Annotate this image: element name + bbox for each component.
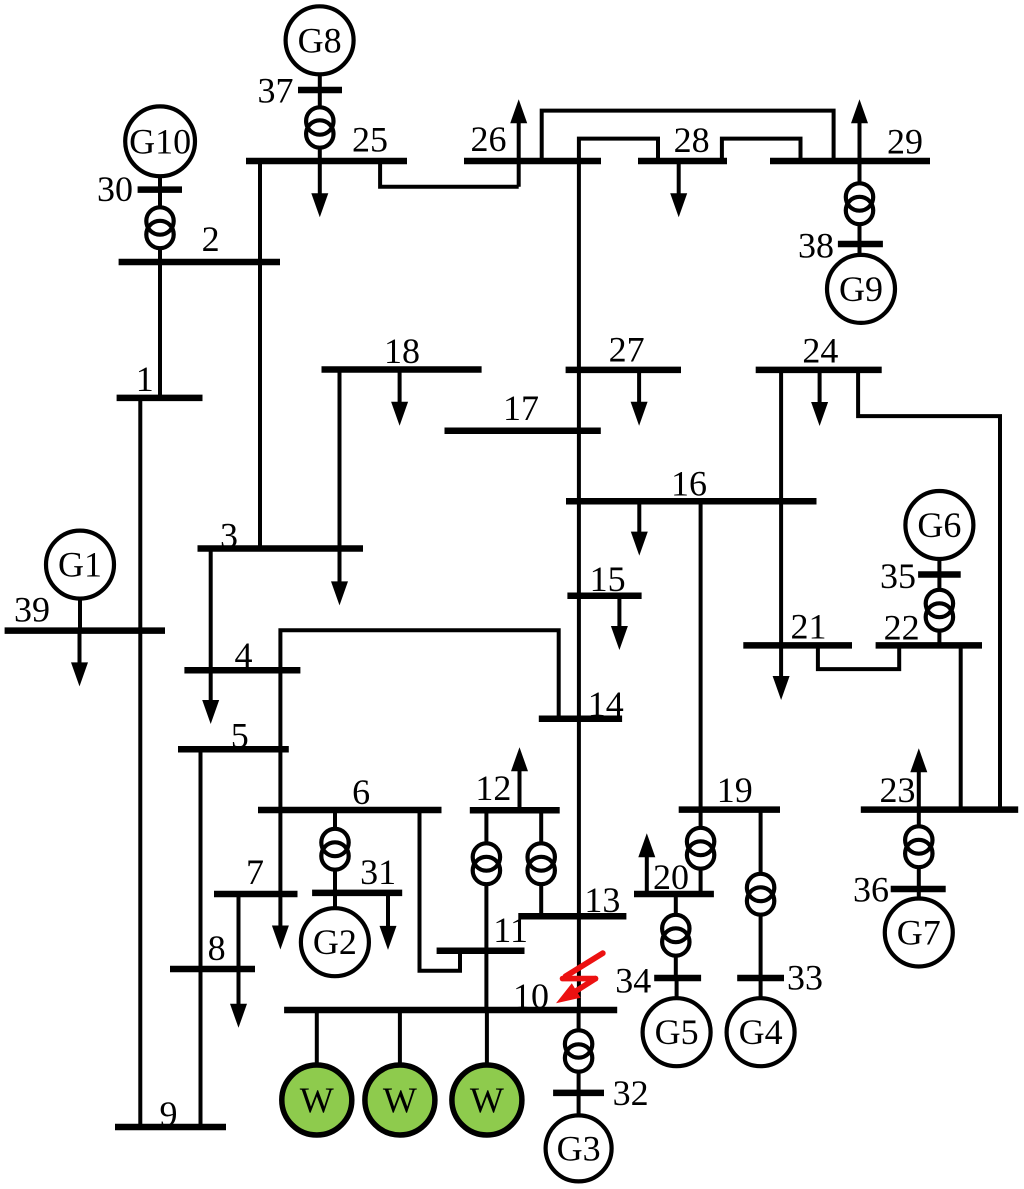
bus 15 (567, 559, 641, 599)
bus 3 (198, 516, 364, 556)
bus 9 (115, 1094, 226, 1134)
load arrow bus 24 load (811, 370, 828, 426)
bus 31 (312, 852, 402, 893)
wire 19 to 33 transformer branch upper (759, 810, 763, 874)
bus 21 (743, 606, 852, 646)
transformer T20-34 (662, 915, 689, 956)
svg-text:38: 38 (798, 226, 834, 266)
bus 6 (258, 772, 442, 812)
bus 30 (97, 169, 182, 209)
transformer T29-38 (846, 183, 873, 224)
svg-text:G4: G4 (739, 1012, 783, 1052)
wire 6 to 31 transformer branch upper (333, 810, 337, 829)
wire 21 to 22 jog (818, 645, 899, 669)
bus 29 (770, 122, 930, 162)
load arrow bus 31 load (380, 893, 397, 950)
bus 17 (445, 388, 601, 431)
load arrow bus 3 load (331, 549, 348, 606)
wire spine 26-27-17-16-15-14-13-10 (577, 161, 581, 1010)
wire 19 to 33 transformer branch lower (759, 915, 763, 978)
bus 39 (5, 590, 165, 631)
svg-text:28: 28 (674, 120, 710, 160)
wire 12 to 13 transformer branch upper (539, 810, 543, 843)
wire G6 stem (937, 559, 941, 575)
transformer T35-22 (926, 590, 953, 631)
wire 26 to 28 bracket (579, 139, 658, 161)
svg-text:35: 35 (880, 556, 916, 596)
bus 34 (615, 961, 701, 1001)
wire G10 stem (158, 176, 162, 189)
svg-text:W: W (383, 1080, 417, 1120)
bus 19 (679, 770, 780, 810)
generator G8 (286, 6, 354, 74)
wire 12 to 11 transformer branch upper (484, 810, 488, 843)
load arrow bus 16 load (631, 501, 648, 555)
generator G1 (46, 531, 114, 599)
generator G6 (905, 491, 973, 559)
transformer T12-11 (473, 843, 500, 884)
svg-text:8: 8 (208, 928, 226, 968)
bus 11 (437, 910, 528, 951)
svg-text:10: 10 (513, 976, 549, 1016)
wire G8 stem (318, 75, 322, 91)
transformer T19-33 (747, 874, 774, 915)
svg-text:G6: G6 (917, 505, 961, 545)
svg-text:G8: G8 (298, 20, 342, 60)
wire 4 to 14 (280, 630, 558, 719)
wire 26 to 29 top line (542, 111, 834, 161)
bus 33 (737, 957, 823, 997)
wire 25 to 26 step (380, 161, 519, 187)
svg-text:G9: G9 (839, 269, 883, 309)
wire 10 to 32 transformer branch lower (577, 1072, 581, 1093)
wire 16 to 19 (699, 501, 703, 809)
svg-text:39: 39 (14, 590, 50, 630)
wire 22 to 23 (959, 645, 963, 809)
svg-text:W: W (470, 1080, 504, 1120)
load arrow bus 8 load (230, 969, 247, 1028)
bus 35 (880, 556, 961, 596)
svg-text:37: 37 (258, 71, 294, 111)
bus 22 (876, 608, 982, 648)
svg-text:G7: G7 (897, 913, 941, 953)
wire 29 to 38 transformer branch lower (858, 224, 862, 244)
wire W2 stem (398, 1010, 402, 1065)
bus 5 (178, 716, 289, 756)
bus 36 (853, 870, 946, 910)
wire 30 to 2 transformer branch upper (158, 190, 162, 208)
generator G9 (827, 255, 895, 323)
wire 10 to 32 transformer branch upper (577, 1010, 581, 1030)
transformer T23-36 (905, 826, 932, 867)
svg-text:2: 2 (202, 219, 220, 259)
wind generator W2 (365, 1065, 435, 1135)
wire G4 stem (759, 978, 763, 998)
svg-text:24: 24 (802, 330, 838, 370)
transformer T37-25 (306, 107, 333, 147)
fault lightning bolt on line 13-10 (556, 953, 603, 1003)
wire G1 stem (78, 599, 82, 630)
wind generator W3 (452, 1065, 522, 1135)
bus 24 (756, 330, 882, 370)
wire 29 to 38 transformer branch upper (858, 161, 862, 183)
wire G7 stem (917, 889, 921, 899)
wire 37 to 25 transformer branch lower (318, 148, 322, 161)
load arrow bus 4 load (202, 670, 219, 724)
arrow bus 23 up (910, 748, 927, 809)
wire 18 to 3 (338, 370, 342, 549)
load arrow bus 21 load (773, 645, 790, 700)
wire 20 to 34 transformer branch upper (674, 894, 678, 915)
generator G10 (125, 106, 195, 176)
wire 5 to 8 to 9 (199, 749, 203, 1127)
transformer T19-20 (687, 828, 714, 869)
wire 23 to 36 transformer branch lower (917, 867, 921, 889)
wire 30 to 2 transformer branch lower (158, 248, 162, 262)
arrow bus 12 up (511, 747, 528, 810)
bus 13 (518, 880, 626, 920)
svg-text:25: 25 (352, 119, 388, 159)
svg-text:23: 23 (880, 770, 916, 810)
svg-text:13: 13 (584, 880, 620, 920)
bus 16 (566, 463, 817, 503)
wire 3 to 4 (209, 549, 213, 671)
bus 14 (539, 684, 624, 724)
wire 7 to 8 (237, 894, 241, 969)
wire 19 to 20 transformer branch lower (699, 869, 703, 894)
svg-text:3: 3 (220, 516, 238, 556)
generator G7 (885, 899, 953, 967)
svg-text:15: 15 (590, 559, 626, 599)
wire 2 to 1 (158, 262, 162, 399)
generator G5 (643, 998, 711, 1066)
bus 18 (322, 331, 482, 371)
svg-text:34: 34 (615, 961, 651, 1001)
wire G5 stem (675, 978, 679, 998)
svg-text:22: 22 (884, 608, 920, 648)
load arrow bus 18 load (391, 370, 408, 426)
svg-text:27: 27 (609, 329, 645, 369)
svg-text:7: 7 (246, 852, 264, 892)
wire 23 to 36 transformer branch upper (917, 810, 921, 827)
svg-text:4: 4 (235, 635, 253, 675)
wire G3 stem (577, 1093, 581, 1116)
bus 12 (470, 768, 560, 810)
svg-text:16: 16 (671, 463, 707, 503)
svg-text:5: 5 (231, 716, 249, 756)
generator G4 (727, 998, 795, 1066)
wire 24 to 23 step (858, 370, 1000, 810)
bus 28 (638, 120, 727, 161)
bus 23 (861, 770, 1018, 810)
bus 1 (117, 359, 203, 399)
wire 6 to 31 transformer branch lower (333, 870, 337, 893)
bus 20 (634, 857, 714, 897)
wire W3 stem (485, 1010, 489, 1065)
transformer T12-13 (528, 843, 555, 884)
generator G3 (546, 1115, 612, 1181)
bus 32 (553, 1073, 649, 1113)
svg-text:29: 29 (887, 122, 923, 162)
bus 4 (184, 635, 300, 675)
svg-text:14: 14 (588, 684, 624, 724)
wire 1 to 39 to 9 (138, 399, 142, 1128)
svg-text:9: 9 (160, 1094, 178, 1134)
wind generator W1 (282, 1065, 352, 1135)
svg-text:1: 1 (136, 359, 154, 399)
svg-text:30: 30 (97, 169, 133, 209)
wire 25 to 2 to 3 (vertical) (258, 161, 262, 549)
wire W1 stem (315, 1010, 319, 1065)
bus 38 (798, 226, 883, 266)
arrow bus 20 up (638, 833, 655, 894)
load arrow bus 25 load (311, 161, 328, 217)
svg-text:26: 26 (471, 119, 507, 159)
transformer T6-31 (321, 829, 348, 870)
svg-text:6: 6 (352, 772, 370, 812)
svg-text:19: 19 (717, 770, 753, 810)
wire 12 to 13 transformer branch lower (539, 884, 543, 916)
bus 26 (464, 119, 601, 161)
bus 2 (119, 219, 280, 262)
wire 28 to 29 bracket (722, 139, 801, 161)
svg-text:12: 12 (475, 768, 511, 808)
bus 10 (284, 976, 617, 1016)
bus 8 (170, 928, 255, 969)
svg-text:G10: G10 (129, 121, 191, 161)
bus 27 (566, 329, 681, 370)
svg-text:21: 21 (791, 606, 827, 646)
svg-text:G3: G3 (557, 1128, 601, 1168)
svg-text:36: 36 (853, 870, 889, 910)
svg-text:17: 17 (503, 388, 539, 428)
load arrow bus 28 load (670, 161, 687, 217)
load arrow bus 15 load (611, 596, 628, 650)
generator G2 (301, 908, 369, 976)
svg-text:31: 31 (360, 852, 396, 892)
svg-text:W: W (300, 1080, 334, 1120)
svg-text:G5: G5 (655, 1012, 699, 1052)
wire G2 stem (333, 893, 337, 908)
svg-text:G1: G1 (58, 545, 102, 585)
svg-text:G2: G2 (313, 922, 357, 962)
transformer T10-32 (565, 1030, 592, 1071)
wire 24 to 16 to 21 (779, 370, 783, 646)
wire 19 to 20 transformer branch upper (699, 810, 703, 828)
bus 37 (258, 71, 343, 111)
bus 25 (246, 119, 407, 161)
wire 4 to 5 to 6 to 7 (278, 670, 282, 894)
wire 20 to 34 transformer branch lower (674, 956, 678, 978)
bus 7 (214, 852, 298, 894)
load arrow bus 7 load (272, 894, 289, 950)
wire 6 to 11 jog (420, 810, 461, 971)
arrow bus 26 up (510, 99, 527, 187)
svg-text:18: 18 (384, 331, 420, 371)
load arrow bus 39 load (71, 631, 88, 687)
load arrow bus 27 load (631, 370, 648, 426)
wire G9 stem (858, 244, 862, 255)
svg-text:32: 32 (613, 1073, 649, 1113)
wire 35 to 22 transformer branch upper (937, 575, 941, 590)
wire 37 to 25 transformer branch upper (318, 90, 322, 107)
wire 35 to 22 transformer branch lower (937, 631, 941, 646)
svg-text:20: 20 (653, 857, 689, 897)
svg-text:33: 33 (787, 957, 823, 997)
svg-text:11: 11 (493, 910, 528, 950)
wire 12 to 11 transformer branch lower (11 to 10) (484, 884, 488, 1010)
transformer T30-2 (146, 207, 173, 248)
arrow bus 29 up (851, 99, 868, 161)
